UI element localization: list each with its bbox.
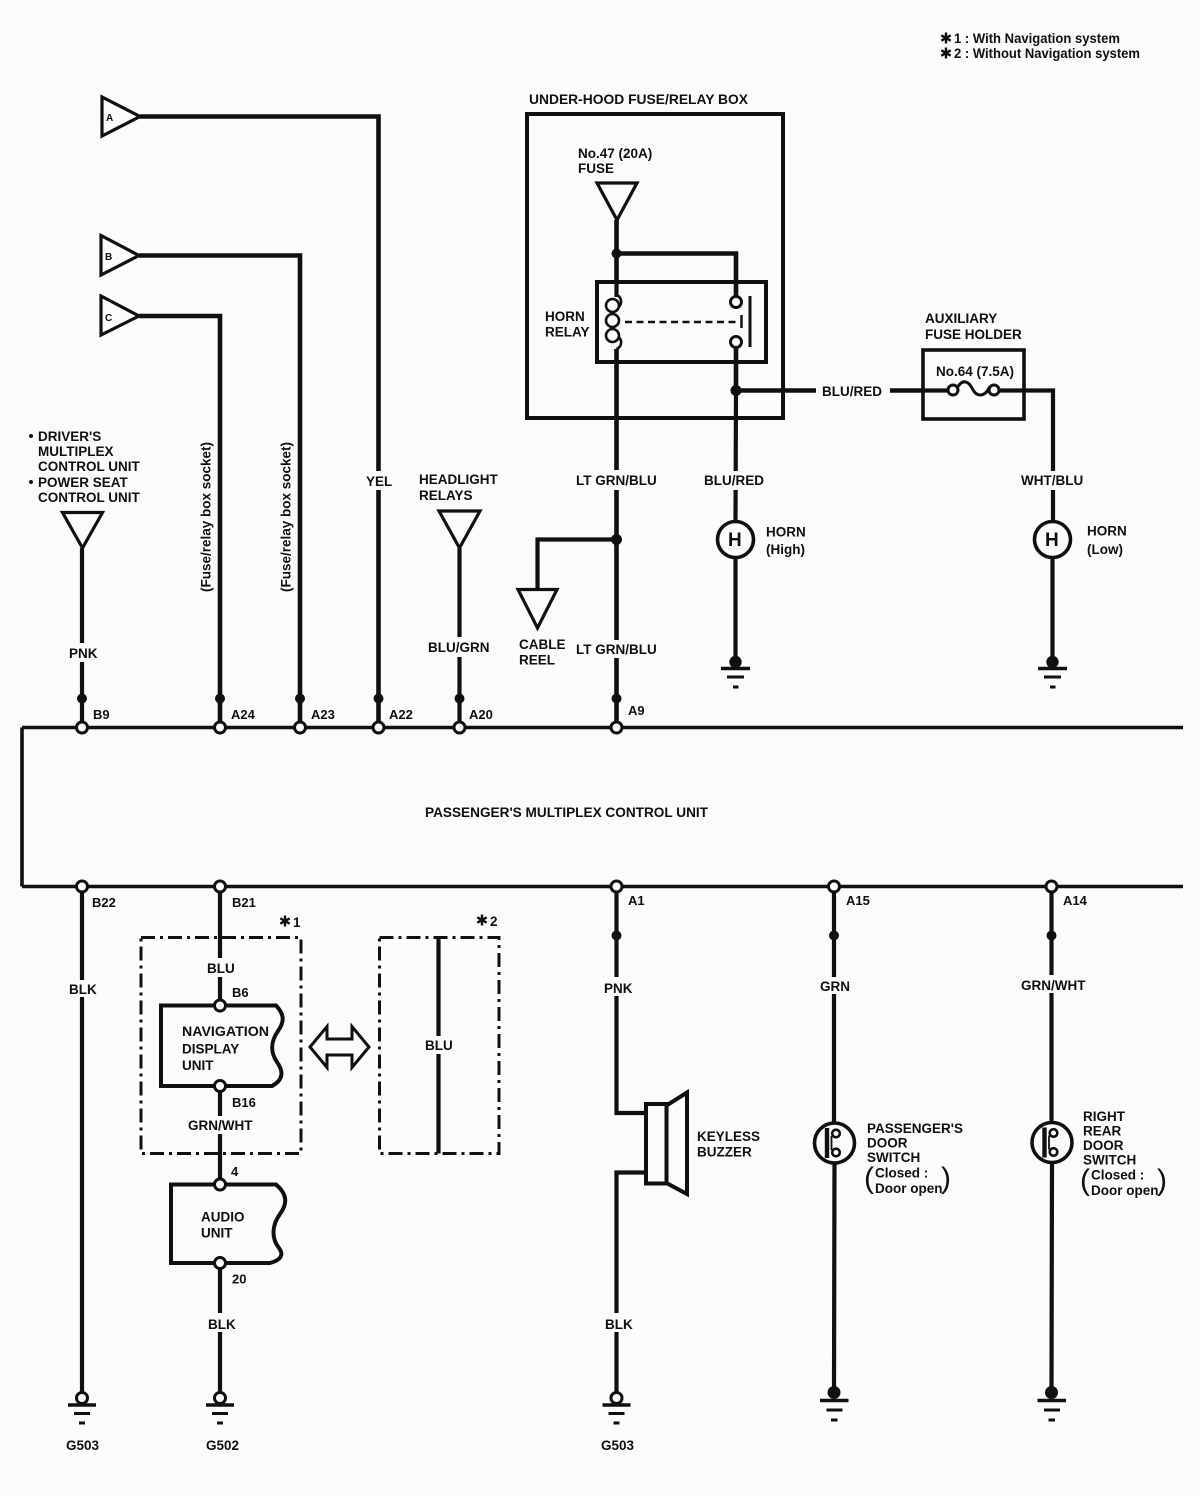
svg-text:Closed :: Closed : [1091, 1168, 1144, 1183]
wire horn high to ground [733, 558, 737, 659]
wire right rear door switch to ground [1049, 1156, 1054, 1393]
node A24 [215, 694, 226, 734]
svg-text:B6: B6 [232, 985, 249, 1000]
ground horn low [1038, 656, 1067, 687]
svg-text:BLK: BLK [69, 982, 97, 997]
wire horn low to ground [1050, 558, 1054, 659]
svg-text:HORN: HORN [1087, 524, 1127, 539]
junction node fuse/relay [612, 249, 622, 259]
wire B16 to audio unit [218, 1086, 222, 1185]
node B6 [215, 1000, 226, 1011]
wire BLU/GRN to A20 [457, 548, 461, 722]
legend note *2 [941, 46, 1140, 61]
svg-text:NAVIGATION: NAVIGATION [182, 1024, 269, 1039]
auxiliary fuse holder box [923, 350, 1024, 419]
svg-text:BLU: BLU [425, 1038, 453, 1053]
node 20 audio [215, 1258, 226, 1269]
svg-text:BLU: BLU [207, 961, 235, 976]
fuse No.47 triangle [597, 183, 637, 220]
node A9 [611, 694, 622, 734]
svg-text:BLU/GRN: BLU/GRN [428, 640, 490, 655]
wire A [140, 117, 379, 723]
svg-text:GRN/WHT: GRN/WHT [1021, 978, 1086, 993]
svg-text:(Low): (Low) [1087, 542, 1123, 557]
svg-text:PNK: PNK [604, 981, 633, 996]
svg-text:SWITCH: SWITCH [1083, 1153, 1136, 1168]
ground right rear door switch [1038, 1386, 1067, 1420]
label No.47 (20A) FUSE [578, 146, 652, 176]
svg-text:CABLE: CABLE [519, 637, 566, 652]
svg-text:BLU/RED: BLU/RED [704, 473, 764, 488]
svg-text:CONTROL UNIT: CONTROL UNIT [38, 490, 140, 505]
svg-text:20: 20 [232, 1272, 246, 1287]
svg-text:GRN/WHT: GRN/WHT [188, 1118, 253, 1133]
keyless buzzer speaker [646, 1093, 687, 1195]
svg-text:DRIVER'S: DRIVER'S [38, 429, 101, 444]
label PASSENGER'S DOOR SWITCH [864, 1121, 963, 1196]
connector B [101, 236, 139, 276]
ground G502 [206, 1393, 234, 1424]
svg-text:HEADLIGHT: HEADLIGHT [419, 472, 498, 487]
svg-text:B21: B21 [232, 895, 256, 910]
wire A14 to door switch [1049, 889, 1053, 1129]
wire WHT/BLU to horn low [1024, 391, 1053, 522]
audio unit box [171, 1185, 285, 1264]
connector A [102, 97, 140, 136]
svg-text:1: 1 [293, 915, 301, 930]
svg-text:HORN: HORN [766, 525, 806, 540]
right rear door switch [1032, 1123, 1072, 1163]
svg-text:H: H [728, 530, 742, 551]
ground G503 left [68, 1393, 96, 1424]
svg-text:B22: B22 [92, 895, 116, 910]
svg-text:FUSE HOLDER: FUSE HOLDER [925, 327, 1022, 342]
svg-text:RELAYS: RELAYS [419, 488, 473, 503]
horn relay coil [606, 282, 621, 349]
svg-text:(: ( [864, 1162, 874, 1195]
ground passenger door switch [820, 1386, 849, 1420]
label NAVIGATION DISPLAY UNIT [182, 1024, 269, 1073]
navigation display unit box [161, 1006, 283, 1087]
svg-text:C: C [105, 313, 112, 324]
wire keyless buzzer branch [617, 889, 647, 1113]
node A22 [373, 694, 384, 734]
svg-text:MULTIPLEX: MULTIPLEX [38, 444, 114, 459]
wire coil to A9 [614, 349, 619, 722]
svg-text:PASSENGER'S: PASSENGER'S [867, 1121, 963, 1136]
dashed option box 1 (with navigation) [141, 938, 301, 1154]
label driver's multiplex / power seat control unit [29, 429, 140, 505]
svg-text:BLK: BLK [605, 1317, 633, 1332]
svg-text:H: H [1045, 530, 1059, 551]
cable reel connector triangle [518, 590, 557, 629]
svg-text:YEL: YEL [366, 474, 392, 489]
svg-text:REAR: REAR [1083, 1124, 1122, 1139]
wire C [139, 316, 220, 722]
svg-text:Door open: Door open [875, 1181, 943, 1196]
svg-text:G503: G503 [66, 1438, 100, 1453]
node B16 [215, 1081, 226, 1092]
svg-text:CONTROL UNIT: CONTROL UNIT [38, 459, 140, 474]
svg-text:LT GRN/BLU: LT GRN/BLU [576, 473, 657, 488]
dashed option box 2 (without navigation) [380, 938, 500, 1154]
svg-text:A22: A22 [389, 707, 413, 722]
horn low circle [1035, 522, 1071, 558]
wire B [139, 256, 300, 723]
svg-text:DISPLAY: DISPLAY [182, 1042, 239, 1057]
svg-text:HORN: HORN [545, 309, 585, 324]
ground G503 keyless [603, 1393, 631, 1424]
svg-text:G503: G503 [601, 1438, 635, 1453]
svg-text:UNDER-HOOD FUSE/RELAY BOX: UNDER-HOOD FUSE/RELAY BOX [529, 92, 748, 107]
junction node cable reel tap [611, 534, 622, 545]
node B22 [77, 881, 88, 892]
headlight relays connector triangle [439, 511, 480, 548]
label CABLE REEL [519, 637, 566, 668]
svg-text:BUZZER: BUZZER [697, 1145, 752, 1160]
svg-text:UNIT: UNIT [182, 1058, 214, 1073]
label HORN RELAY [545, 309, 590, 340]
svg-text:AUXILIARY: AUXILIARY [925, 311, 997, 326]
svg-text:PASSENGER'S MULTIPLEX CONTROL: PASSENGER'S MULTIPLEX CONTROL UNIT [425, 805, 709, 820]
svg-text:G502: G502 [206, 1438, 239, 1453]
ground horn high [721, 656, 750, 687]
horn high circle [718, 522, 754, 558]
wire A15 to door switch [832, 889, 836, 1130]
svg-text:B9: B9 [93, 707, 110, 722]
node B21 [215, 881, 226, 892]
svg-text:BLK: BLK [208, 1317, 236, 1332]
svg-text:No.47 (20A): No.47 (20A) [578, 146, 652, 161]
bus terminals [77, 694, 1058, 1269]
wire fuse to junction [614, 220, 619, 282]
svg-text:LT GRN/BLU: LT GRN/BLU [576, 642, 657, 657]
horn relay box [597, 282, 766, 362]
node A1 [611, 881, 622, 941]
svg-text:B: B [105, 252, 112, 263]
label *1 [280, 915, 301, 930]
equivalence double arrow [310, 1027, 369, 1068]
svg-text:(Fuse/relay box socket): (Fuse/relay box socket) [199, 442, 214, 592]
legend note *1 [941, 31, 1120, 46]
wire BLU option 2 [436, 938, 440, 1154]
svg-text:A20: A20 [469, 707, 493, 722]
label RIGHT REAR DOOR SWITCH [1080, 1109, 1167, 1198]
under-hood fuse/relay box [527, 114, 783, 418]
svg-text:Closed :: Closed : [875, 1166, 928, 1181]
svg-text:KEYLESS: KEYLESS [697, 1129, 760, 1144]
svg-text:A24: A24 [231, 707, 256, 722]
svg-text:(High): (High) [766, 542, 805, 557]
node A20 [454, 694, 465, 734]
wire PNK to B9 [80, 548, 84, 722]
node B9 [77, 694, 88, 734]
label KEYLESS BUZZER [697, 1129, 760, 1160]
svg-text:No.64 (7.5A): No.64 (7.5A) [936, 364, 1014, 379]
label HORN (Low) [1087, 524, 1127, 558]
svg-text:BLU/RED: BLU/RED [822, 384, 882, 399]
node 4 audio [215, 1179, 226, 1190]
label AUXILIARY FUSE HOLDER [925, 311, 1022, 342]
svg-text:DOOR: DOOR [867, 1136, 908, 1151]
svg-text:AUDIO: AUDIO [201, 1210, 245, 1225]
svg-text:(: ( [1080, 1164, 1090, 1197]
horn relay armature dashed link [625, 315, 742, 328]
wire BLU/RED to aux fuse holder [736, 388, 923, 393]
svg-text:PNK: PNK [69, 646, 98, 661]
wire relay contact to BLU/RED junction [734, 348, 739, 392]
junction node BLU/RED [731, 385, 742, 396]
wire keyless buzzer lower [617, 1173, 647, 1394]
passenger's door switch [815, 1123, 855, 1163]
svg-text:REEL: REEL [519, 653, 555, 668]
svg-text:A: A [106, 113, 113, 124]
svg-text:A23: A23 [311, 707, 335, 722]
horn relay switch contacts [731, 296, 751, 348]
svg-text:SWITCH: SWITCH [867, 1150, 920, 1165]
svg-text:FUSE: FUSE [578, 161, 614, 176]
svg-text:RELAY: RELAY [545, 325, 590, 340]
node A15 [829, 881, 840, 941]
svg-text:RIGHT: RIGHT [1083, 1109, 1126, 1124]
label HORN (High) [766, 525, 806, 558]
label HEADLIGHT RELAYS [419, 472, 498, 503]
svg-text:A14: A14 [1063, 893, 1088, 908]
svg-text:A15: A15 [846, 893, 870, 908]
wire 20 to ground G502 [218, 1263, 222, 1393]
node A23 [295, 694, 306, 734]
svg-text:Door open: Door open [1091, 1183, 1159, 1198]
wire B22 to ground G503 [80, 889, 84, 1393]
svg-text:GRN: GRN [820, 979, 850, 994]
svg-text:): ) [941, 1162, 951, 1195]
svg-text:DOOR: DOOR [1083, 1138, 1124, 1153]
label *2 [477, 914, 497, 929]
passenger's multiplex control unit bus outline [22, 728, 1183, 887]
svg-text:2 : Without Navigation system: 2 : Without Navigation system [954, 46, 1140, 61]
wire junction to relay contact [617, 254, 737, 298]
connector C [101, 296, 139, 335]
svg-text:POWER SEAT: POWER SEAT [38, 475, 129, 490]
svg-text:): ) [1157, 1164, 1167, 1197]
svg-text:A1: A1 [628, 893, 645, 908]
driver's multiplex / power seat control unit connector triangle [63, 513, 103, 549]
wire B21 down [218, 889, 222, 1006]
fuse No.64 symbol [923, 382, 1024, 395]
svg-text:WHT/BLU: WHT/BLU [1021, 473, 1083, 488]
svg-text:UNIT: UNIT [201, 1226, 233, 1241]
svg-text:B16: B16 [232, 1095, 256, 1110]
svg-text:2: 2 [490, 914, 498, 929]
label white-outs on wires [66, 381, 1089, 1332]
svg-text:(Fuse/relay box socket): (Fuse/relay box socket) [279, 442, 294, 592]
wire BLU/RED down to horn high [733, 391, 738, 522]
node A14 [1046, 881, 1057, 941]
wire door switch to ground [832, 1157, 837, 1394]
wire to cable reel [538, 540, 617, 590]
svg-text:4: 4 [231, 1164, 239, 1179]
svg-text:A9: A9 [628, 703, 645, 718]
label AUDIO UNIT [201, 1210, 245, 1241]
svg-text:1 : With Navigation system: 1 : With Navigation system [954, 31, 1120, 46]
